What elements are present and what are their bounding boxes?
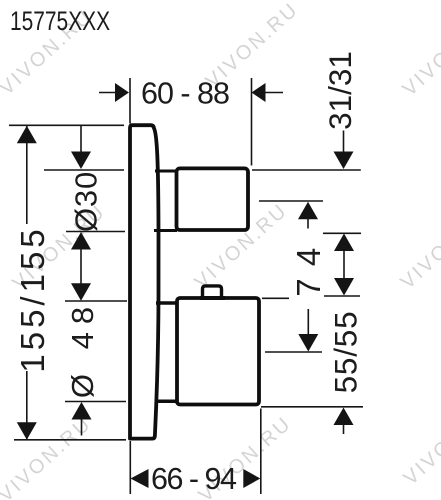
dimension 155/155 arrow up <box>17 126 37 144</box>
dimension 74 arrow up <box>298 202 318 220</box>
top handle neck top edge <box>155 170 177 173</box>
extension line top-handle bottom, right side <box>323 232 361 234</box>
gap double-arrow down <box>334 278 354 296</box>
dimension 31/31 arrow down <box>334 152 354 170</box>
svg-text:Ø30: Ø30 <box>69 171 104 232</box>
svg-text:60 - 88: 60 - 88 <box>141 77 229 111</box>
top handle head <box>177 168 249 230</box>
extension line top-handle bottom, left side <box>66 231 125 233</box>
bottom handle neck top edge <box>156 301 177 305</box>
extension line bottom-handle bottom right <box>261 406 363 408</box>
extension line 60-88 left vertical <box>129 78 131 124</box>
extension line top-handle centerline right <box>259 200 323 202</box>
dimension Ø48 arrow down <box>71 283 91 301</box>
dimension 66-94 left arrow <box>131 469 149 488</box>
extension line top-handle top, left side <box>44 169 124 171</box>
dimension Ø30 leader line top <box>80 126 82 152</box>
dimension 60-88 left arrow <box>115 83 129 102</box>
extension line bottom-handle centerline right <box>265 351 322 353</box>
extension line 66-94 left vertical <box>129 441 131 494</box>
bottom handle body <box>177 298 259 405</box>
gap double-arrow up <box>334 234 354 252</box>
dimension 31/31 leader <box>343 131 345 153</box>
dimension 60-88 left tail <box>99 92 116 94</box>
top handle neck bottom edge <box>154 229 177 232</box>
extension line 60-88 right vertical <box>251 78 253 166</box>
svg-text:Ø 48: Ø 48 <box>65 299 100 398</box>
dimension 74 top tail <box>307 218 309 229</box>
extension line top-handle top, right side <box>252 169 361 171</box>
extension line 66-94 right vertical <box>260 409 262 495</box>
dimension Ø30 arrow down <box>71 152 91 170</box>
dimension 66-94 right arrow <box>243 469 260 488</box>
wall plate side profile <box>130 125 159 438</box>
dimension 60-88 right arrow <box>252 83 266 102</box>
bottom handle neck bottom edge <box>155 400 177 404</box>
svg-text:66 - 94: 66 - 94 <box>151 462 237 496</box>
extension line bottom-handle top edge right <box>262 297 289 299</box>
extension line bottom-handle top, left side <box>65 300 127 302</box>
extension line plate-top left <box>9 124 124 126</box>
bottom handle top edge restore <box>200 296 225 300</box>
dimension Ø30/Ø48 shared shaft <box>80 249 82 284</box>
extension line plate-bottom left <box>14 439 126 441</box>
dimension Ø48 bottom tail <box>81 419 83 436</box>
dimension 55/55 arrow up <box>334 408 354 426</box>
extension line bottom-handle top, right short <box>324 295 360 297</box>
svg-text:55/55: 55/55 <box>328 311 364 394</box>
dimension 155/155 line upper segment <box>26 126 28 224</box>
dimension Ø30 arrow up <box>71 232 91 250</box>
dimension 155/155 arrow down <box>17 422 37 440</box>
dimension Ø48 arrow up <box>72 402 92 420</box>
gap double-arrow shaft <box>343 250 345 279</box>
svg-text:7 4: 7 4 <box>290 246 327 296</box>
dimension 74 bottom shaft <box>307 309 309 335</box>
svg-text:31/31: 31/31 <box>322 51 358 130</box>
svg-text:15775XXX: 15775XXX <box>10 7 110 37</box>
dimension 155/155 line lower segment <box>26 371 28 439</box>
extension line bottom-handle bottom, left side <box>65 401 126 403</box>
dimension 60-88 right tail <box>265 92 283 94</box>
dimension 55/55 bottom tail <box>343 424 345 434</box>
bottom handle tab <box>203 286 222 297</box>
dimension 74 arrow down <box>298 334 318 352</box>
svg-text:155/155: 155/155 <box>14 225 51 372</box>
